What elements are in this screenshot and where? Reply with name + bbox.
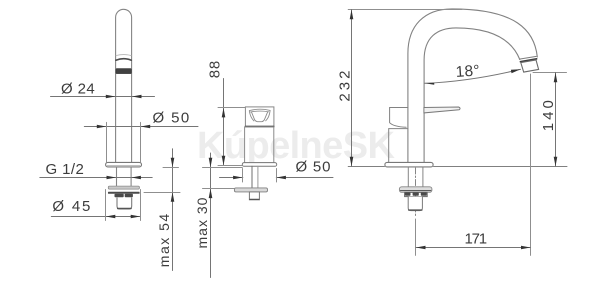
svg-text:88: 88 — [207, 60, 224, 78]
dim 88 — [223, 79, 225, 166]
body lower-left box — [389, 129, 408, 163]
body — [245, 127, 274, 163]
tube rim dark curve — [116, 59, 131, 61]
88 arrows (inside, pointing out) — [222, 108, 226, 118]
Ø50 left arrows — [97, 125, 107, 129]
svg-text:G 1/2: G 1/2 — [46, 161, 85, 178]
deck extension line — [348, 166, 384, 168]
pipe — [251, 166, 253, 188]
pipe below flange — [407, 167, 409, 187]
dim Ø50 left — [84, 126, 198, 128]
Ø45 arrows (inside, pointing out) — [106, 215, 116, 219]
washer Ø45 — [108, 186, 139, 189]
svg-text:18°: 18° — [455, 62, 480, 81]
body upper-left box — [390, 108, 408, 128]
spout tube body — [116, 9, 132, 162]
aerator dark band — [116, 69, 131, 74]
tailpiece — [408, 197, 422, 211]
dim Ø24 — [51, 96, 155, 98]
aerator joint band — [519, 56, 536, 59]
washer — [234, 188, 267, 192]
svg-text:Ø 24: Ø 24 — [61, 80, 95, 97]
knob inside — [249, 109, 270, 110]
threaded pipe G1/2 — [116, 167, 118, 186]
dim 171 — [416, 247, 531, 249]
svg-text:232: 232 — [336, 68, 353, 102]
max30 arrows — [209, 158, 213, 168]
171 right extension / outlet centerline — [530, 74, 532, 255]
centerline dash-dot — [415, 168, 417, 216]
locknut bar — [108, 192, 140, 194]
svg-text:Ø 50: Ø 50 — [153, 109, 191, 126]
dim 232 — [348, 9, 462, 11]
svg-text:max 54: max 54 — [156, 212, 172, 267]
flange — [385, 162, 433, 167]
spout outer curve — [408, 9, 537, 163]
nut — [249, 192, 259, 200]
aerator tip — [521, 60, 539, 72]
tailpiece — [117, 198, 132, 209]
dim 140 — [533, 72, 567, 74]
max54 arrows — [171, 158, 175, 168]
notched nut — [115, 194, 124, 197]
washer — [399, 187, 432, 193]
dim max54 — [172, 149, 174, 271]
handle box — [245, 107, 274, 127]
svg-text:Ø 45: Ø 45 — [52, 198, 92, 215]
spout inner curve — [424, 28, 520, 163]
dim 18 arc — [425, 69, 521, 83]
232 arrows — [350, 10, 354, 20]
flange — [242, 163, 276, 167]
svg-text:max 30: max 30 — [194, 197, 210, 249]
nut — [405, 192, 428, 196]
flange (rosette) — [106, 162, 142, 167]
171 arrows (inside, pointing out) — [416, 246, 426, 250]
handle lever — [424, 107, 460, 113]
svg-text:140: 140 — [540, 97, 557, 131]
dim max30 — [210, 153, 212, 278]
G1/2 arrows — [107, 176, 117, 180]
dim Ø45 — [51, 216, 140, 218]
Ø50 middle arrows — [233, 176, 243, 180]
18 deg arrows — [425, 83, 435, 85]
Ø24 arrows — [106, 95, 116, 99]
140 arrows — [554, 73, 558, 83]
svg-text:Ø 50: Ø 50 — [296, 158, 332, 175]
svg-text:171: 171 — [465, 230, 487, 247]
tube faint arc — [116, 55, 131, 56]
dim Ø50 middle — [220, 177, 243, 179]
dim G1/2 — [40, 177, 152, 179]
